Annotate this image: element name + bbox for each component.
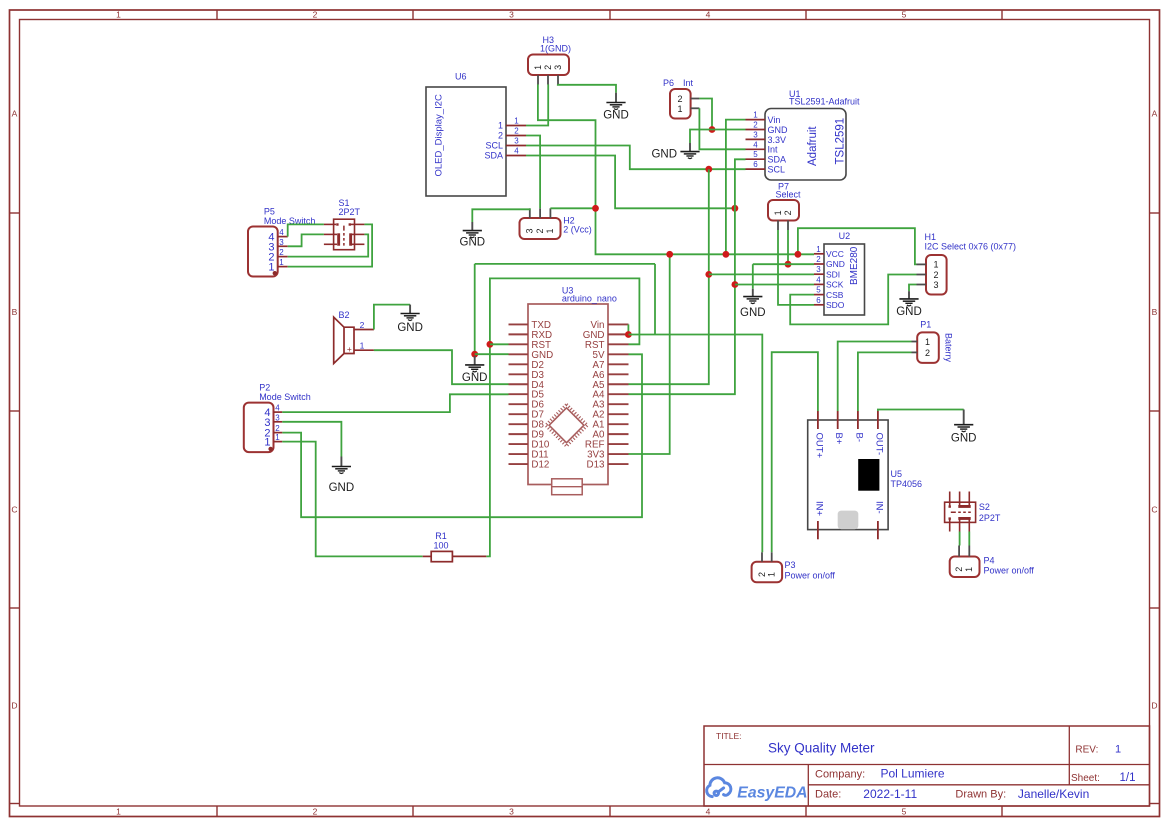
svg-text:1: 1 <box>264 437 270 449</box>
svg-text:D12: D12 <box>531 460 549 471</box>
svg-text:2: 2 <box>514 127 519 136</box>
svg-text:Adafruit: Adafruit <box>807 126 819 166</box>
svg-text:4: 4 <box>753 140 758 149</box>
svg-text:1/1: 1/1 <box>1120 772 1136 784</box>
svg-text:EasyEDA: EasyEDA <box>737 784 807 801</box>
wire U2.GND to ground <box>753 263 814 265</box>
ground (H1) <box>896 291 922 318</box>
svg-text:4: 4 <box>514 147 519 156</box>
svg-text:SCK: SCK <box>826 280 844 290</box>
svg-text:B: B <box>12 307 18 317</box>
connector P1 battery <box>912 320 954 363</box>
wire H1.1 branch <box>798 228 917 264</box>
svg-text:3: 3 <box>279 238 284 247</box>
svg-text:Power on/off: Power on/off <box>984 566 1035 576</box>
wire P5.3 to S1 <box>288 234 324 246</box>
buzzer B2 <box>334 310 374 364</box>
svg-text:OUT-: OUT- <box>873 433 884 456</box>
wire P2.1 to R1 <box>282 442 422 557</box>
svg-text:2: 2 <box>498 131 503 141</box>
wire U1 GND to ground <box>690 130 746 144</box>
ground (P6/U1) <box>651 143 699 161</box>
svg-text:5: 5 <box>902 807 907 817</box>
svg-text:2: 2 <box>757 572 767 577</box>
svg-text:Pol Lumiere: Pol Lumiere <box>881 767 945 781</box>
svg-text:4: 4 <box>275 404 280 413</box>
wire U2.CSB to H1.2 <box>790 275 916 325</box>
svg-text:GND: GND <box>896 306 922 318</box>
wire RST net <box>486 278 639 556</box>
svg-text:TP4056: TP4056 <box>891 479 923 489</box>
svg-text:3: 3 <box>553 65 563 70</box>
svg-text:1: 1 <box>677 104 682 114</box>
svg-text:S2: S2 <box>979 502 990 512</box>
svg-text:TSL2591: TSL2591 <box>835 118 847 165</box>
svg-text:1: 1 <box>545 228 555 233</box>
wire B2.2 to ground <box>374 305 410 330</box>
wire U3.5V to P2.2 <box>282 354 642 517</box>
svg-text:A: A <box>12 109 18 119</box>
junction <box>592 205 599 212</box>
svg-text:B+: B+ <box>833 433 844 445</box>
svg-text:D: D <box>11 701 17 711</box>
switch S1 2P2T <box>324 198 365 250</box>
svg-text:1: 1 <box>925 337 930 347</box>
wire H1.3 to ground <box>909 285 917 292</box>
svg-text:Sky Quality Meter: Sky Quality Meter <box>768 740 875 755</box>
wire B2.1 to U3.D4 <box>374 350 509 384</box>
svg-text:SCL: SCL <box>485 141 503 151</box>
svg-text:OLED_Display_I2C: OLED_Display_I2C <box>433 94 444 177</box>
svg-text:2: 2 <box>753 121 758 130</box>
junction <box>723 251 730 258</box>
header H2 <box>520 208 592 239</box>
svg-text:Company:: Company: <box>815 768 865 780</box>
svg-text:1: 1 <box>533 65 543 70</box>
wire P5.2 to S1 <box>288 234 369 256</box>
charger module U5 TP4056 <box>808 411 922 539</box>
ground (H2) <box>460 222 486 249</box>
svg-text:3: 3 <box>509 10 514 20</box>
svg-text:D13: D13 <box>587 460 606 471</box>
svg-text:1: 1 <box>933 260 938 270</box>
connector P4 power on/off <box>950 546 1035 578</box>
svg-text:I2C Select 0x76 (0x77): I2C Select 0x76 (0x77) <box>925 242 1017 252</box>
svg-text:P2: P2 <box>259 383 270 393</box>
svg-text:3: 3 <box>509 807 514 817</box>
ground (U5) <box>951 410 977 445</box>
svg-text:D: D <box>1151 701 1157 711</box>
svg-text:P1: P1 <box>920 320 931 330</box>
svg-text:2: 2 <box>313 807 318 817</box>
header H1 <box>917 232 1017 295</box>
svg-text:GND: GND <box>603 110 629 122</box>
svg-text:2: 2 <box>933 270 938 280</box>
svg-text:U5: U5 <box>891 469 903 479</box>
svg-text:4: 4 <box>279 228 284 237</box>
wire U5.B- to P1.2 <box>858 352 912 411</box>
svg-text:GND: GND <box>329 482 355 494</box>
svg-text:B2: B2 <box>339 310 350 320</box>
svg-text:SDO: SDO <box>826 300 845 310</box>
OLED display U6 <box>426 72 526 197</box>
svg-text:Power on/off: Power on/off <box>785 571 836 581</box>
svg-text:GND: GND <box>951 433 977 445</box>
svg-text:IN-: IN- <box>873 501 884 514</box>
svg-text:2: 2 <box>535 228 545 233</box>
junction <box>625 331 632 338</box>
svg-text:2: 2 <box>783 210 793 215</box>
svg-text:H1: H1 <box>925 232 937 242</box>
svg-text:100: 100 <box>433 541 448 551</box>
svg-text:3: 3 <box>753 130 758 139</box>
switch S2 2P2T <box>945 492 1001 532</box>
connector P5 <box>248 207 315 277</box>
svg-text:2: 2 <box>360 320 365 330</box>
svg-text:OUT+: OUT+ <box>813 433 824 459</box>
wire H3.3 to GND <box>558 84 616 92</box>
svg-text:P4: P4 <box>984 556 995 566</box>
wire P7.1 to U2.SDO <box>778 230 814 305</box>
svg-text:1: 1 <box>773 210 783 215</box>
svg-text:2: 2 <box>925 348 930 358</box>
wire U6.SCL to U1.SCL <box>526 146 746 170</box>
svg-text:U6: U6 <box>455 72 467 82</box>
svg-text:Mode Switch: Mode Switch <box>259 392 311 402</box>
wire H2.3 to GND <box>472 209 530 223</box>
svg-text:1: 1 <box>116 807 121 817</box>
junction <box>709 126 716 133</box>
svg-text:SDA: SDA <box>768 155 787 165</box>
svg-text:1: 1 <box>514 117 519 126</box>
svg-text:P5: P5 <box>264 207 275 217</box>
ground (B2) <box>397 305 423 334</box>
MCU U3 arduino_nano <box>509 286 629 495</box>
wire Vcc rail: H3.1 / H2.1 / U2 VCC <box>538 84 814 254</box>
svg-text:2P2T: 2P2T <box>979 513 1001 523</box>
ground (U2) <box>740 289 766 319</box>
svg-text:Janelle/Kevin: Janelle/Kevin <box>1018 787 1089 801</box>
connector P7 <box>768 182 801 231</box>
connector P3 power on/off <box>752 552 836 582</box>
svg-text:4: 4 <box>706 10 711 20</box>
wire P6.1 to U1 Int <box>699 108 745 149</box>
wire mid ground rail <box>654 264 656 335</box>
wire to U3 left GND <box>475 353 509 355</box>
junction <box>471 351 478 358</box>
wire P2.3 to ground <box>282 422 341 457</box>
svg-text:2P2T: 2P2T <box>339 207 361 217</box>
resistor R1 100 <box>423 531 487 562</box>
svg-text:CSB: CSB <box>826 290 844 300</box>
svg-text:GND: GND <box>768 125 789 135</box>
svg-text:SDI: SDI <box>826 269 840 279</box>
junction <box>732 281 739 288</box>
wire S2 to P4.2 <box>959 532 961 546</box>
svg-text:+: + <box>347 344 352 354</box>
svg-text:1: 1 <box>275 433 280 442</box>
svg-text:2: 2 <box>543 65 553 70</box>
wire U3 right GND rail to P3.2 <box>627 324 629 334</box>
svg-text:Vin: Vin <box>768 115 781 125</box>
svg-text:2: 2 <box>816 255 821 264</box>
svg-text:4: 4 <box>816 275 821 284</box>
wire P5.1 to S1 <box>288 224 372 266</box>
svg-text:1: 1 <box>753 111 758 120</box>
svg-text:1: 1 <box>360 341 365 351</box>
wire U5.OUT- to ground <box>878 410 964 412</box>
wire S2 to P4.1 <box>968 532 970 546</box>
svg-text:U2: U2 <box>839 231 851 241</box>
junction <box>487 341 494 348</box>
svg-text:3: 3 <box>275 413 280 422</box>
svg-text:REV:: REV: <box>1075 745 1098 756</box>
svg-text:C: C <box>1151 505 1157 515</box>
svg-text:1: 1 <box>767 572 777 577</box>
svg-text:3: 3 <box>816 265 821 274</box>
svg-text:Int: Int <box>683 78 694 88</box>
svg-text:arduino_nano: arduino_nano <box>562 294 617 304</box>
svg-text:VCC: VCC <box>826 249 844 259</box>
svg-text:3: 3 <box>525 228 535 233</box>
svg-text:3: 3 <box>514 137 519 146</box>
svg-text:1: 1 <box>964 567 974 572</box>
wire U6.2 to H2.2 <box>526 136 540 209</box>
svg-text:4: 4 <box>706 807 711 817</box>
svg-text:2: 2 <box>677 94 682 104</box>
svg-text:1(GND): 1(GND) <box>540 44 571 54</box>
svg-text:P3: P3 <box>785 560 796 570</box>
svg-text:B-: B- <box>853 433 864 443</box>
svg-text:2022-1-11: 2022-1-11 <box>863 787 917 801</box>
svg-text:TITLE:: TITLE: <box>716 731 742 741</box>
svg-text:Sheet:: Sheet: <box>1071 773 1100 784</box>
wire U1.Vin branch <box>726 120 746 255</box>
connector P2 <box>244 383 311 453</box>
ground (P2) <box>329 457 355 495</box>
svg-text:1: 1 <box>279 258 284 267</box>
wire H3.2 to U6.1 <box>526 84 548 125</box>
junction <box>705 166 712 173</box>
svg-text:Baterry: Baterry <box>944 333 954 363</box>
svg-text:GND: GND <box>740 307 766 319</box>
svg-text:GND: GND <box>460 237 486 249</box>
wire U1.SDA down to U2.SCK and U3.A4 <box>629 159 746 394</box>
svg-text:B: B <box>1152 307 1158 317</box>
svg-text:2: 2 <box>275 424 280 433</box>
wire P2.4 to U3.D5 <box>282 394 508 412</box>
connector P6 <box>663 78 699 119</box>
svg-text:3.3V: 3.3V <box>768 135 787 145</box>
wire U6.SDA jog <box>526 156 735 209</box>
ground (U3) <box>462 356 488 384</box>
svg-text:A: A <box>1152 109 1158 119</box>
wire U2.SDI stub line <box>709 273 814 275</box>
svg-text:GND: GND <box>462 372 488 384</box>
svg-text:5: 5 <box>816 286 821 295</box>
wire SCL branch to U2.SDI and U3.A5 <box>629 169 709 384</box>
wire H2.1 branch <box>550 207 595 209</box>
svg-text:BME280: BME280 <box>849 246 860 285</box>
svg-text:Int: Int <box>768 145 779 155</box>
svg-text:3: 3 <box>933 280 938 290</box>
junction <box>785 261 792 268</box>
svg-text:GND: GND <box>397 322 423 334</box>
svg-text:1: 1 <box>116 10 121 20</box>
junction <box>705 271 712 278</box>
ground (H3) <box>603 93 629 122</box>
svg-text:1: 1 <box>816 245 821 254</box>
header H3 <box>528 35 571 85</box>
junction <box>732 205 739 212</box>
wire U5.OUT+ to P3.1 <box>772 352 818 552</box>
svg-text:R1: R1 <box>435 531 447 541</box>
wire U5.B+ to P1.1 <box>838 342 912 412</box>
wire P7.2 to U2 GND net <box>787 230 789 264</box>
svg-text:1: 1 <box>1115 744 1121 756</box>
svg-text:P6: P6 <box>663 78 674 88</box>
svg-text:IN+: IN+ <box>813 501 824 517</box>
sensor module U1 TSL2591-Adafruit <box>746 89 861 180</box>
wire P6.2 to U1 GND net <box>699 99 712 130</box>
wire to U3 left RST <box>490 343 509 345</box>
svg-text:2 (Vcc): 2 (Vcc) <box>563 225 592 235</box>
svg-text:Date:: Date: <box>815 789 841 801</box>
wire P5.4 to S1 <box>288 224 324 236</box>
svg-text:SDA: SDA <box>484 151 503 161</box>
svg-text:GND: GND <box>651 149 677 161</box>
svg-text:2: 2 <box>313 10 318 20</box>
svg-text:C: C <box>11 505 17 515</box>
svg-text:Select: Select <box>776 190 802 200</box>
svg-text:6: 6 <box>816 296 821 305</box>
svg-text:6: 6 <box>753 160 758 169</box>
wire U2.SCK stub line <box>735 284 814 286</box>
svg-text:2: 2 <box>954 567 964 572</box>
sensor U2 BME280 <box>814 231 865 315</box>
junction <box>666 251 673 258</box>
wire 3V3 branch <box>629 254 670 454</box>
junction <box>795 251 802 258</box>
svg-text:Drawn By:: Drawn By: <box>955 789 1006 801</box>
svg-text:GND: GND <box>826 259 845 269</box>
svg-text:1: 1 <box>498 121 503 131</box>
svg-text:5: 5 <box>902 10 907 20</box>
svg-text:TSL2591-Adafruit: TSL2591-Adafruit <box>789 97 860 107</box>
svg-text:SCL: SCL <box>768 165 786 175</box>
svg-text:5: 5 <box>753 150 758 159</box>
svg-text:2: 2 <box>279 248 284 257</box>
